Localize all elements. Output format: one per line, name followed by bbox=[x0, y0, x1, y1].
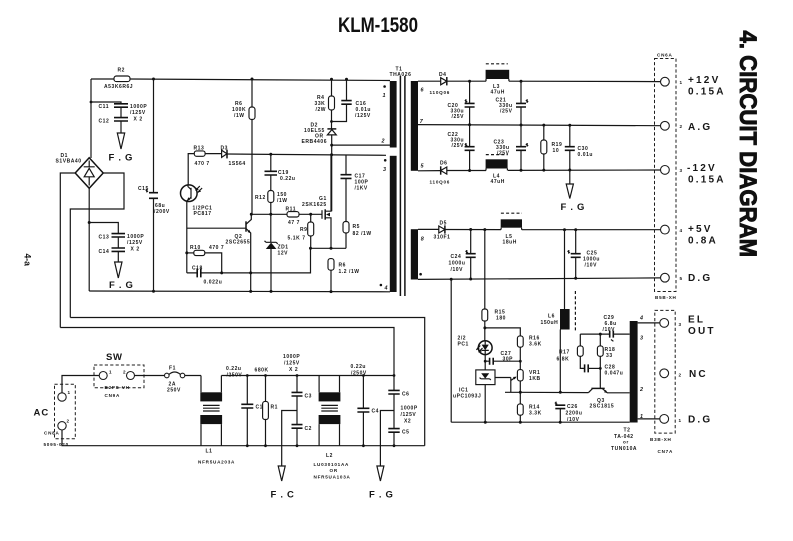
svg-text:D3: D3 bbox=[221, 146, 229, 152]
resistor R2 bbox=[104, 68, 133, 91]
svg-text:R17: R17 bbox=[559, 350, 570, 356]
wire D.G rail bbox=[418, 277, 661, 281]
capacitor C26 bbox=[555, 402, 583, 423]
svg-text:3: 3 bbox=[640, 336, 643, 342]
svg-text:/10V: /10V bbox=[585, 263, 598, 269]
svg-text:1: 1 bbox=[109, 370, 112, 375]
resistor R19 bbox=[541, 125, 563, 170]
svg-text:47uH: 47uH bbox=[491, 90, 505, 96]
svg-text:1000P: 1000P bbox=[283, 354, 300, 360]
capacitor C17 bbox=[341, 155, 369, 221]
svg-text:PC1: PC1 bbox=[458, 342, 469, 348]
wire bridge bottom to box bottom rail bbox=[88, 188, 91, 291]
wire primary pin2 bbox=[332, 144, 390, 146]
svg-text:310F1: 310F1 bbox=[434, 235, 451, 241]
svg-text:+5V: +5V bbox=[688, 224, 713, 235]
transistor Q2 2SC2655 bbox=[187, 214, 252, 291]
capacitor C4 bbox=[351, 364, 380, 446]
svg-text:/125V: /125V bbox=[130, 110, 146, 116]
svg-text:0.22u: 0.22u bbox=[351, 364, 367, 370]
wire lower circuit bottom rail bbox=[451, 421, 630, 424]
label D.G bbox=[688, 273, 712, 284]
svg-text:+12V: +12V bbox=[688, 75, 720, 86]
resistor R13 bbox=[194, 146, 222, 168]
shunt regulator IC1 uPC1093J bbox=[453, 370, 495, 422]
wire SW to fuse bbox=[135, 375, 165, 377]
resistor R11 bbox=[286, 207, 300, 227]
resistor R9 bbox=[288, 214, 314, 248]
svg-text:47 7: 47 7 bbox=[288, 220, 300, 226]
svg-text:B3B-XH: B3B-XH bbox=[650, 437, 672, 442]
svg-text:/25V: /25V bbox=[452, 114, 465, 120]
svg-text:X 2: X 2 bbox=[134, 117, 143, 123]
wire emitter network to source node bbox=[222, 248, 311, 274]
svg-text:EL: EL bbox=[688, 315, 705, 326]
wire left vertical from top rail to bridge bbox=[90, 79, 92, 158]
svg-text:KLM-1580: KLM-1580 bbox=[338, 13, 418, 37]
svg-text:5: 5 bbox=[680, 276, 683, 281]
svg-text:/1W: /1W bbox=[277, 198, 288, 204]
svg-text:CN6A: CN6A bbox=[657, 53, 673, 58]
capacitor C27 bbox=[484, 351, 522, 370]
resistor R16 bbox=[517, 336, 541, 362]
wire bridge right corner loop to second bus bbox=[70, 173, 124, 318]
svg-text:CN7A: CN7A bbox=[658, 449, 674, 454]
svg-text:8: 8 bbox=[421, 237, 424, 243]
svg-text:R10: R10 bbox=[190, 245, 201, 251]
svg-text:R12: R12 bbox=[255, 195, 266, 201]
diode D4 bbox=[418, 72, 450, 95]
svg-text:1000u: 1000u bbox=[449, 261, 466, 267]
svg-text:250V: 250V bbox=[167, 388, 181, 394]
label EL OUT bbox=[688, 315, 716, 338]
transformer T1 label bbox=[390, 67, 412, 79]
node +5 rail junctions bbox=[469, 228, 577, 231]
label T2 TA-042 or TUN010A bbox=[611, 428, 637, 453]
wire T2 tap4 to EL OUT bbox=[638, 322, 661, 324]
wire source row bbox=[309, 247, 346, 250]
svg-text:3.6K: 3.6K bbox=[529, 342, 542, 348]
svg-text:110Q06: 110Q06 bbox=[430, 90, 451, 95]
svg-text:47uH: 47uH bbox=[491, 179, 505, 185]
svg-text:/1KV: /1KV bbox=[355, 186, 368, 192]
svg-text:/200V: /200V bbox=[154, 209, 170, 215]
svg-text:C11: C11 bbox=[99, 104, 110, 110]
svg-text:33: 33 bbox=[606, 353, 613, 359]
svg-text:2SK1625: 2SK1625 bbox=[302, 202, 327, 208]
wire photo collector up to R13 bbox=[188, 154, 194, 185]
diode D6 bbox=[418, 161, 661, 185]
svg-text:S1VBA40: S1VBA40 bbox=[56, 159, 82, 165]
line filter L2 bbox=[314, 376, 351, 480]
transformer T1 primary winding 3-4 bbox=[380, 156, 397, 292]
svg-text:NFR5UA103A: NFR5UA103A bbox=[314, 475, 351, 480]
svg-text:F . G: F . G bbox=[109, 153, 134, 164]
capacitor C24 bbox=[449, 230, 476, 280]
wire top +DC rail bbox=[91, 79, 390, 81]
svg-text:R11: R11 bbox=[286, 207, 297, 213]
svg-text:1000P: 1000P bbox=[401, 406, 418, 412]
svg-text:6.8K: 6.8K bbox=[557, 357, 570, 363]
svg-text:A.G: A.G bbox=[688, 122, 712, 133]
node bottom rail junctions bbox=[152, 290, 333, 293]
resistor R14 bbox=[517, 404, 541, 422]
svg-text:C18: C18 bbox=[192, 266, 203, 272]
svg-text:L6: L6 bbox=[548, 314, 555, 320]
wire AC pin1 to SW bbox=[62, 376, 99, 393]
mosfet G1 2SK1625 bbox=[302, 155, 331, 249]
svg-text:4: 4 bbox=[639, 316, 643, 322]
svg-text:/125V: /125V bbox=[355, 113, 371, 119]
svg-text:/125V: /125V bbox=[127, 240, 143, 246]
svg-text:2SC1815: 2SC1815 bbox=[590, 404, 615, 410]
svg-text:L2: L2 bbox=[326, 453, 333, 459]
transformer T1 core bbox=[400, 76, 405, 296]
page number 4-a bbox=[23, 254, 33, 267]
svg-text:5.1K 7: 5.1K 7 bbox=[288, 236, 306, 242]
resistor R4 33K bbox=[315, 79, 335, 129]
bridge rectifier D1 bbox=[56, 153, 104, 188]
capacitor C15 bbox=[138, 79, 170, 291]
svg-text:4-a: 4-a bbox=[23, 254, 33, 267]
page title KLM-1580 bbox=[338, 13, 418, 37]
capacitor C16 bbox=[332, 79, 371, 121]
capacitor C14 bbox=[99, 234, 145, 262]
svg-text:B5B-XH: B5B-XH bbox=[655, 295, 677, 300]
svg-text:/25V: /25V bbox=[497, 151, 510, 157]
svg-text:F . G: F . G bbox=[561, 202, 586, 213]
wire photo emitter down bbox=[185, 202, 188, 273]
resistor R1 bbox=[255, 368, 279, 446]
resistor R18 bbox=[597, 334, 615, 368]
transformer T1 secondary winding 6-7-5 bbox=[411, 81, 425, 171]
svg-text:2200u: 2200u bbox=[566, 411, 583, 417]
inductor L4 bbox=[486, 155, 508, 185]
svg-text:3: 3 bbox=[680, 168, 683, 173]
capacitor C1 bbox=[226, 366, 263, 446]
label +5V 0.8A bbox=[688, 224, 718, 247]
svg-text:/2W: /2W bbox=[316, 107, 327, 113]
svg-text:-12V: -12V bbox=[687, 163, 717, 174]
svg-text:/125V: /125V bbox=[284, 361, 300, 367]
svg-text:470 7: 470 7 bbox=[209, 245, 224, 251]
svg-text:1: 1 bbox=[68, 390, 71, 395]
svg-text:F . C: F . C bbox=[271, 490, 295, 501]
inductor L6 bbox=[541, 291, 576, 394]
svg-text:18uH: 18uH bbox=[503, 240, 517, 246]
svg-text:0.8A: 0.8A bbox=[688, 236, 718, 247]
svg-text:D5: D5 bbox=[440, 221, 448, 227]
node D3 wire junctions bbox=[269, 153, 333, 157]
svg-text:2: 2 bbox=[679, 373, 682, 378]
capacitor C22 bbox=[448, 125, 475, 171]
capacitor C11 bbox=[91, 102, 128, 118]
svg-text:1KB: 1KB bbox=[529, 376, 541, 382]
svg-text:0.15A: 0.15A bbox=[688, 175, 726, 186]
ground F.G arrow (secondary) bbox=[561, 170, 586, 213]
svg-text:C6: C6 bbox=[402, 392, 410, 398]
svg-text:3: 3 bbox=[383, 167, 386, 173]
ground F.G arrow (C13/C14) bbox=[109, 262, 134, 291]
capacitor C20 bbox=[448, 81, 475, 125]
svg-text:F1: F1 bbox=[169, 366, 176, 372]
connector CN6A bbox=[655, 53, 683, 301]
svg-text:2SC2655: 2SC2655 bbox=[226, 240, 251, 246]
svg-text:/125V: /125V bbox=[401, 412, 417, 418]
inductor L5 bbox=[501, 213, 522, 245]
svg-text:0.01u: 0.01u bbox=[578, 152, 594, 158]
svg-text:C24: C24 bbox=[451, 254, 462, 260]
ground F.G arrow (filter) bbox=[369, 411, 394, 501]
svg-text:C3: C3 bbox=[305, 394, 313, 400]
svg-text:C14: C14 bbox=[99, 249, 110, 255]
wire +12V rail bbox=[447, 80, 661, 83]
opto-transistor 1/2 PC1 PC817 bbox=[181, 185, 213, 217]
svg-text:X2: X2 bbox=[404, 419, 411, 425]
svg-text:L1: L1 bbox=[206, 449, 213, 455]
svg-text:or: or bbox=[623, 440, 629, 445]
svg-text:D6: D6 bbox=[440, 161, 448, 167]
svg-text:C13: C13 bbox=[99, 235, 110, 241]
capacitor C13 bbox=[89, 223, 125, 249]
svg-text:0.22u: 0.22u bbox=[226, 366, 242, 372]
wire T2 tap1 to D.G bbox=[638, 418, 661, 420]
inductor L3 bbox=[486, 64, 510, 96]
svg-text:0.047u: 0.047u bbox=[605, 371, 624, 377]
svg-text:F . G: F . G bbox=[369, 490, 394, 501]
svg-text:2: 2 bbox=[123, 370, 126, 375]
svg-text:2: 2 bbox=[381, 139, 385, 145]
svg-text:C1: C1 bbox=[256, 405, 264, 411]
svg-text:LU030101AA: LU030101AA bbox=[314, 462, 350, 467]
svg-text:0.022u: 0.022u bbox=[204, 280, 223, 286]
transistor Q3 2SC1815 bbox=[520, 368, 629, 409]
svg-text:110Q06: 110Q06 bbox=[430, 180, 451, 185]
svg-text:R2: R2 bbox=[118, 68, 126, 74]
wire long bus A (bridge right to filter bottom) bbox=[70, 318, 424, 446]
connector CN8A (AC inlet) bbox=[34, 384, 76, 447]
svg-text:R6: R6 bbox=[339, 263, 347, 269]
resistor R5 82 bbox=[343, 222, 372, 249]
connector CN7A bbox=[650, 310, 682, 454]
svg-text:2: 2 bbox=[680, 124, 683, 129]
capacitor C5 bbox=[388, 406, 418, 446]
wire bridge left corner to left bus bbox=[60, 173, 75, 328]
wire IC1 ref to VR1 wiper bbox=[495, 377, 520, 393]
svg-text:R9: R9 bbox=[300, 227, 308, 233]
wire filter bottom rail bbox=[201, 444, 425, 447]
svg-text:D.G: D.G bbox=[688, 273, 712, 284]
svg-text:/25V: /25V bbox=[452, 143, 465, 149]
svg-text:10: 10 bbox=[553, 148, 560, 154]
node -12 rail junctions bbox=[468, 169, 571, 173]
svg-text:1: 1 bbox=[383, 93, 386, 99]
svg-text:TUN010A: TUN010A bbox=[611, 446, 637, 452]
svg-text:4: 4 bbox=[384, 286, 388, 292]
svg-text:NFR5UA203A: NFR5UA203A bbox=[198, 460, 235, 465]
svg-text:1: 1 bbox=[679, 418, 682, 423]
svg-text:AC: AC bbox=[34, 407, 50, 418]
svg-text:/250V: /250V bbox=[227, 373, 243, 379]
svg-text:180: 180 bbox=[496, 316, 506, 322]
svg-text:1.2 /1W: 1.2 /1W bbox=[339, 269, 360, 275]
svg-text:CN9A: CN9A bbox=[105, 393, 121, 398]
resistor R10 bbox=[187, 245, 224, 273]
potentiometer VR1 bbox=[517, 361, 540, 404]
capacitor C19 bbox=[265, 154, 296, 190]
node top rail junctions bbox=[90, 78, 348, 104]
capacitor C18 bbox=[187, 266, 223, 286]
capacitor C25 bbox=[568, 230, 600, 279]
label A.G bbox=[688, 122, 712, 133]
resistor R15 bbox=[482, 230, 506, 342]
wire box bottom rail bbox=[89, 290, 390, 293]
svg-text:1S564: 1S564 bbox=[229, 161, 246, 167]
wire R15 node to R16 bbox=[485, 328, 520, 336]
capacitor C23 bbox=[494, 125, 529, 170]
resistor R6 100K bbox=[232, 79, 255, 214]
diode D5 bbox=[418, 221, 661, 241]
svg-text:C26: C26 bbox=[567, 404, 578, 410]
capacitor C30 bbox=[565, 125, 593, 170]
svg-text:82 /1W: 82 /1W bbox=[353, 231, 372, 237]
wire oscillator top row with C29 bbox=[580, 315, 629, 341]
svg-text:SW: SW bbox=[106, 352, 123, 363]
svg-text:/10V: /10V bbox=[567, 417, 580, 423]
capacitor C3 bbox=[283, 354, 312, 411]
zener diode ZD1 bbox=[265, 214, 289, 291]
svg-text:D.G: D.G bbox=[688, 415, 712, 426]
resistor R7 1.2 bbox=[328, 259, 360, 292]
svg-text:OR: OR bbox=[330, 468, 338, 473]
capacitor C21 bbox=[496, 81, 529, 125]
capacitor C6 bbox=[388, 376, 409, 411]
svg-text:470 7: 470 7 bbox=[195, 161, 210, 167]
wire A.G rail bbox=[418, 123, 661, 126]
svg-text:NC: NC bbox=[689, 369, 708, 380]
ground F.G arrow (C11/C12) bbox=[109, 133, 134, 164]
label D.G (EL) bbox=[688, 415, 712, 426]
capacitor C28 bbox=[585, 364, 624, 376]
capacitor C2 bbox=[292, 411, 313, 446]
resistor R12 bbox=[255, 191, 288, 215]
svg-text:F . G: F . G bbox=[109, 280, 134, 291]
svg-text:X 2: X 2 bbox=[131, 247, 140, 253]
svg-text:R13: R13 bbox=[194, 146, 205, 152]
label -12V 0.15A bbox=[687, 163, 726, 186]
transformer T1 secondary winding 8 bbox=[411, 229, 424, 279]
svg-text:OUT: OUT bbox=[688, 326, 716, 337]
svg-text:/1W: /1W bbox=[234, 113, 245, 119]
svg-text:X 2: X 2 bbox=[289, 367, 298, 373]
wire gate drive row bbox=[250, 213, 322, 216]
svg-text:ERB4406: ERB4406 bbox=[302, 139, 328, 145]
svg-text:30P: 30P bbox=[503, 356, 514, 362]
svg-text:PC817: PC817 bbox=[194, 211, 212, 217]
svg-text:1: 1 bbox=[680, 80, 683, 85]
svg-text:A53K6R6J: A53K6R6J bbox=[104, 84, 133, 90]
svg-text:4: 4 bbox=[680, 228, 683, 233]
svg-text:2: 2 bbox=[639, 387, 643, 393]
label +12V 0.15A bbox=[688, 75, 726, 98]
label NC bbox=[689, 369, 708, 380]
svg-text:C15: C15 bbox=[138, 186, 149, 192]
wire filter top rail bbox=[221, 374, 395, 377]
wire long bus B (bridge left to filter top) bbox=[60, 328, 394, 376]
svg-text:C4: C4 bbox=[372, 409, 380, 415]
svg-text:R5: R5 bbox=[353, 224, 361, 230]
diode D2 bbox=[302, 123, 337, 212]
svg-text:12V: 12V bbox=[278, 251, 289, 257]
svg-text:D4: D4 bbox=[439, 72, 447, 78]
svg-text:/10V: /10V bbox=[451, 267, 464, 273]
svg-text:680K: 680K bbox=[255, 368, 269, 374]
svg-text:C2: C2 bbox=[305, 426, 313, 432]
svg-text:/25V: /25V bbox=[500, 109, 513, 115]
svg-text:R1: R1 bbox=[271, 405, 279, 411]
capacitor C12 bbox=[99, 104, 148, 133]
wire AC pin2 to bottom rail bbox=[62, 430, 201, 446]
svg-text:CN8A: CN8A bbox=[44, 431, 60, 436]
svg-text:uPC1093J: uPC1093J bbox=[453, 394, 481, 400]
transformer T2 winding bbox=[630, 316, 643, 423]
svg-text:0.15A: 0.15A bbox=[688, 87, 726, 98]
svg-text:C12: C12 bbox=[99, 119, 110, 125]
svg-text:2: 2 bbox=[67, 419, 70, 424]
svg-text:4. CIRCUIT DIAGRAM: 4. CIRCUIT DIAGRAM bbox=[735, 31, 762, 258]
switch SW / connector CN9A bbox=[94, 352, 144, 398]
ground F.C arrow bbox=[271, 411, 298, 501]
wire +5 feed to L6 bbox=[564, 230, 566, 309]
svg-text:C5: C5 bbox=[402, 430, 410, 436]
svg-text:0.22u: 0.22u bbox=[280, 176, 296, 182]
transformer T1 primary winding 1-2 bbox=[381, 81, 397, 148]
svg-text:150uH: 150uH bbox=[541, 320, 559, 326]
side title 4. CIRCUIT DIAGRAM bbox=[735, 31, 762, 258]
line filter L1 bbox=[198, 376, 235, 465]
diode D3 bbox=[221, 146, 387, 168]
svg-text:/10V: /10V bbox=[603, 327, 616, 333]
svg-text:T2: T2 bbox=[624, 428, 631, 434]
wire D.G to lower circuit left edge bbox=[450, 279, 452, 422]
svg-text:B2PS-VH: B2PS-VH bbox=[105, 385, 130, 390]
resistor R17 bbox=[557, 334, 585, 368]
svg-text:/250V: /250V bbox=[351, 371, 367, 377]
svg-text:3.3K: 3.3K bbox=[529, 411, 542, 417]
opto-LED 2/2 PC1 bbox=[458, 336, 493, 355]
svg-text:3: 3 bbox=[679, 322, 682, 327]
fuse F1 bbox=[165, 366, 202, 394]
